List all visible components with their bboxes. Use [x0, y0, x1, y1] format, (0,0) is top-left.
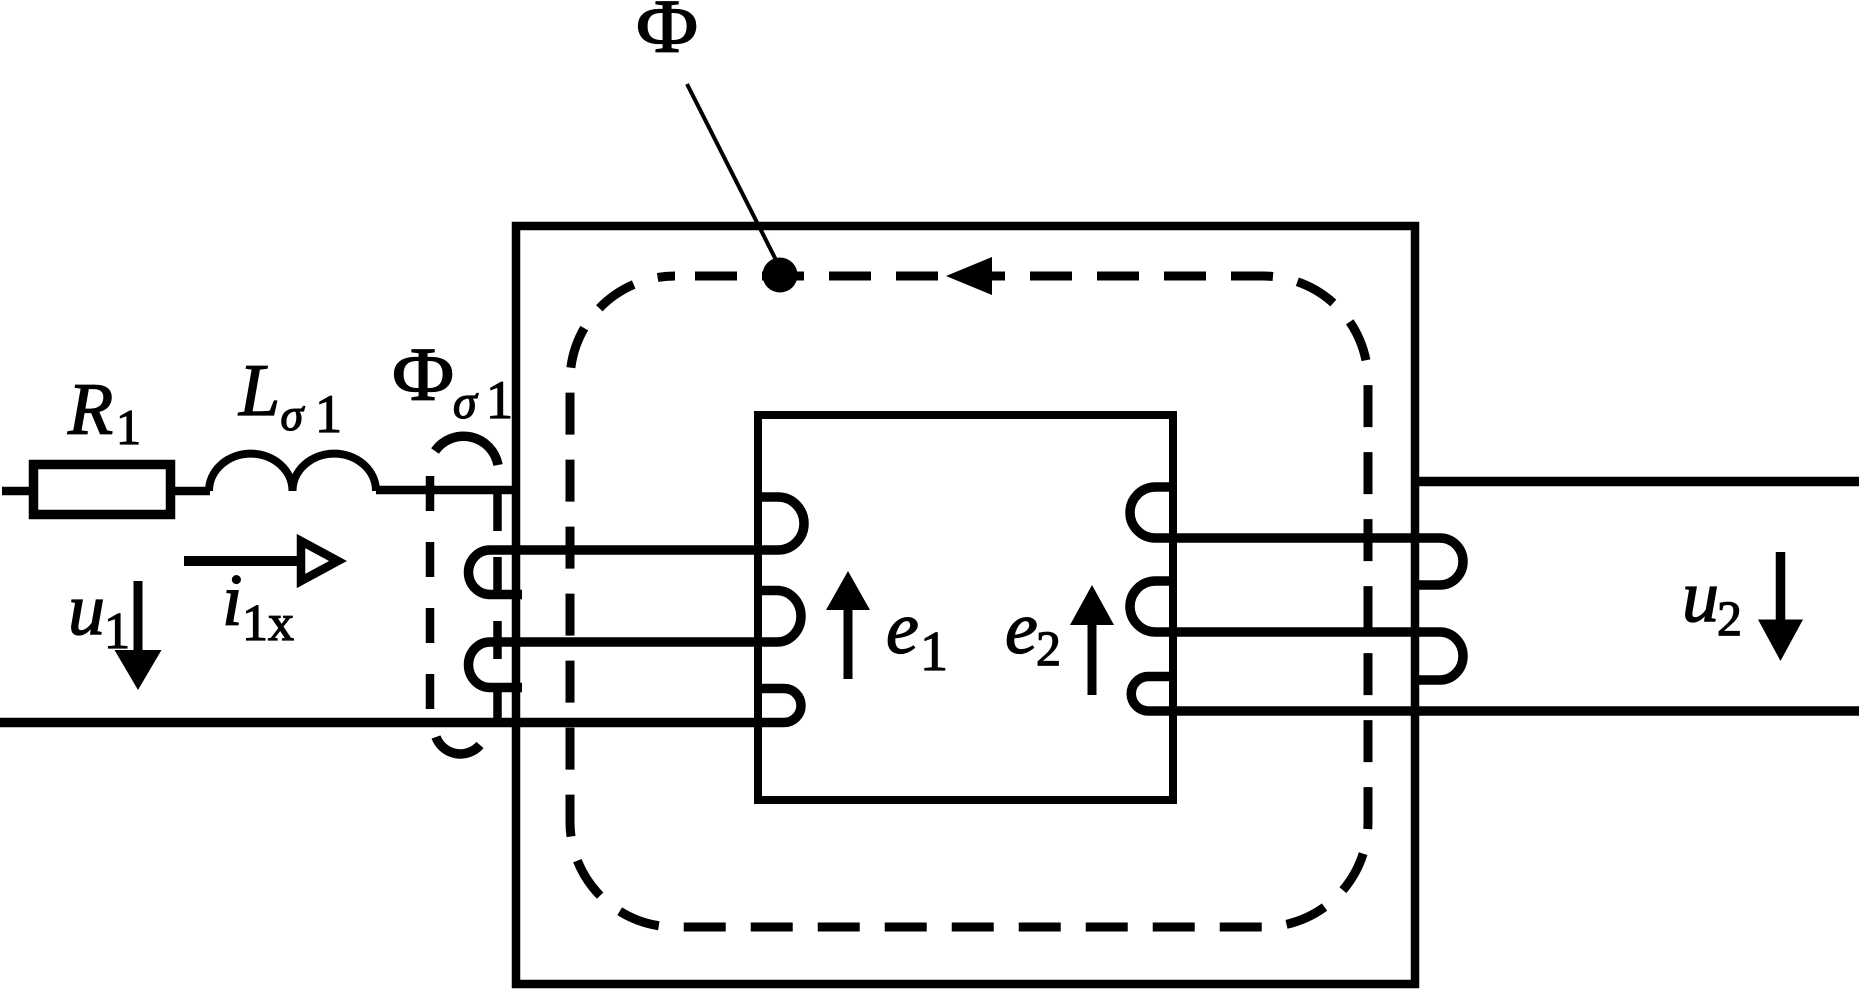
- svg-text:1: 1: [104, 603, 130, 660]
- svg-text:i: i: [222, 560, 243, 642]
- svg-text:1: 1: [920, 621, 948, 683]
- svg-text:σ: σ: [453, 376, 479, 429]
- svg-text:Φ: Φ: [392, 333, 454, 417]
- svg-text:1: 1: [315, 384, 342, 444]
- svg-text:L: L: [238, 350, 280, 432]
- svg-text:1x: 1x: [242, 595, 294, 652]
- svg-text:σ: σ: [281, 389, 306, 440]
- svg-text:R: R: [67, 369, 113, 451]
- svg-text:e: e: [886, 588, 919, 670]
- svg-text:e: e: [1005, 588, 1038, 670]
- svg-text:u: u: [1682, 556, 1719, 638]
- svg-text:1: 1: [486, 370, 513, 430]
- svg-text:2: 2: [1036, 620, 1061, 676]
- svg-text:2: 2: [1717, 590, 1742, 646]
- svg-text:1: 1: [116, 399, 141, 455]
- svg-text:u: u: [68, 569, 105, 651]
- svg-text:Φ: Φ: [636, 0, 698, 69]
